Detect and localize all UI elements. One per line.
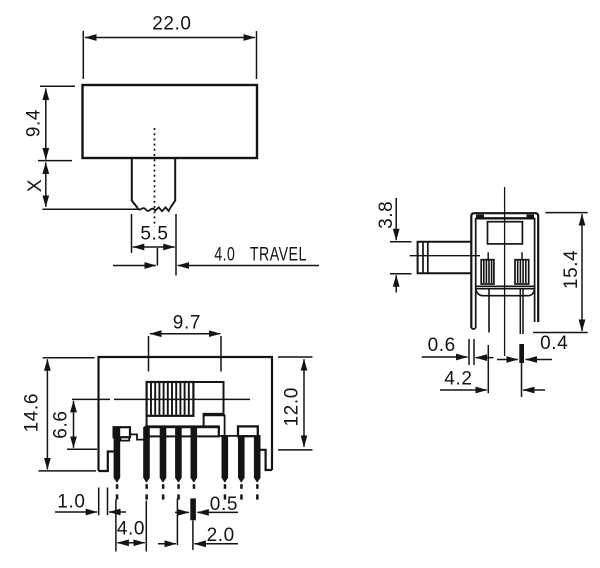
svg-text:22.0: 22.0 xyxy=(152,14,191,35)
dim 1.0 extension lines xyxy=(99,488,108,516)
dim 15.4 line xyxy=(581,214,583,331)
dim 0.5 pin cross-section bar xyxy=(190,498,196,520)
dim 3.8 extension lines xyxy=(390,242,412,274)
dim 0.5 left arrow xyxy=(175,511,189,513)
dim 0.4 right arrow xyxy=(526,359,553,361)
front view: slider knob hatched block xyxy=(147,382,194,416)
dim 9.7 line xyxy=(150,333,220,335)
side view: actuator xyxy=(418,242,471,274)
dim 4.2 left arrow xyxy=(440,389,487,391)
dim 5.5 extension lines xyxy=(132,214,177,276)
dim 4.0 line xyxy=(117,542,144,544)
top view: shaft break line xyxy=(137,207,170,211)
dim 22.0 extension lines xyxy=(83,31,256,79)
dim 0.4 pin cross-section bar xyxy=(519,344,524,363)
front view: pin 8 xyxy=(254,436,261,500)
svg-text:12.0: 12.0 xyxy=(281,387,302,426)
dim X bottom extension line xyxy=(43,208,140,210)
side view: right contact xyxy=(515,260,529,284)
front view: rail to pin6 xyxy=(219,435,238,437)
dim 2.0 left arrow xyxy=(158,543,176,545)
dim 5.5 line xyxy=(133,246,175,248)
front view: pin 4 xyxy=(175,427,182,500)
front view: pin 6 xyxy=(222,436,229,500)
front view: switch body outline xyxy=(99,357,273,471)
front view: knob centerline xyxy=(72,398,250,400)
dim 0.6 right arrow xyxy=(476,357,494,359)
dim 6.6 line xyxy=(73,401,75,448)
dim 0.5 right arrow xyxy=(197,511,238,513)
dim 14.6 line xyxy=(46,359,48,469)
top view: knob shaft xyxy=(132,158,175,208)
dim 9.4 line xyxy=(45,89,47,160)
side view: vertical centerline xyxy=(504,187,506,356)
dim 12.0 line xyxy=(303,359,305,447)
side view: cover inner outline xyxy=(476,219,535,328)
front view: pin 5 xyxy=(191,427,198,489)
front view: knob hatch lines xyxy=(151,383,189,415)
front view: caps rail pins 2-5 xyxy=(145,427,219,436)
side view: seat plate lines xyxy=(476,286,535,288)
side view: left terminal pin xyxy=(488,289,490,333)
side view: cover outer outline xyxy=(471,213,538,328)
svg-text:1.0: 1.0 xyxy=(57,492,85,513)
svg-text:15.4: 15.4 xyxy=(561,250,582,289)
svg-text:4.0: 4.0 xyxy=(214,245,235,266)
side view: actuator band xyxy=(423,242,428,274)
front view: pin 1 xyxy=(114,427,121,500)
side view: right terminal pin xyxy=(520,289,523,334)
dim 0.4 left arrow xyxy=(497,359,518,361)
dim 4.0 travel right arrow xyxy=(178,265,319,267)
svg-text:0.6: 0.6 xyxy=(428,335,456,356)
dim 4.0 travel drop line xyxy=(156,248,158,266)
front view: pin 3 xyxy=(160,427,167,500)
top view: knob body xyxy=(83,85,258,158)
dim 15.4 extension lines xyxy=(533,213,588,333)
dim 22.0 line xyxy=(85,37,255,39)
svg-text:14.6: 14.6 xyxy=(22,393,43,432)
svg-text:6.6: 6.6 xyxy=(51,410,72,438)
dim 4.2 right arrow xyxy=(523,389,545,391)
svg-text:TRAVEL: TRAVEL xyxy=(250,245,307,266)
side view: left contact stub xyxy=(487,252,489,259)
front view: pin 7 xyxy=(238,436,245,500)
dim 0.6 left arrow xyxy=(422,356,468,358)
side view: left contact xyxy=(481,260,494,284)
top view: shaft dotted centerline xyxy=(154,128,156,227)
side view: left contact hatch xyxy=(484,261,492,284)
svg-text:9.7: 9.7 xyxy=(173,312,201,333)
front view: knob base bottom edge xyxy=(145,426,219,436)
dim 3.8 lower arrow xyxy=(395,275,397,292)
front view: right ledge xyxy=(204,415,225,436)
side view: right contact stub xyxy=(521,252,523,259)
svg-text:5.5: 5.5 xyxy=(140,224,168,245)
side view: actuator centerline xyxy=(410,255,480,257)
dim 3.8 upper arrow xyxy=(395,198,397,240)
dim 0.6 extension lines xyxy=(469,339,474,365)
dim 4.0 extension lines xyxy=(116,500,146,552)
svg-text:3.8: 3.8 xyxy=(376,201,397,229)
svg-text:4.0: 4.0 xyxy=(117,519,145,540)
dim 14.6 extension lines xyxy=(38,358,96,471)
front view: pin1 cap step xyxy=(121,438,130,441)
svg-text:4.2: 4.2 xyxy=(444,368,472,389)
dim 1.0 left arrow xyxy=(55,511,97,513)
dim 9.7 extension lines xyxy=(149,336,222,372)
dim 2.0 extension lines xyxy=(177,498,193,550)
svg-text:0.4: 0.4 xyxy=(540,333,568,354)
dim 12.0 extension lines xyxy=(278,357,313,450)
dim X line xyxy=(45,163,47,207)
dim 1.0 right arrow xyxy=(109,511,126,513)
side view: left leg bottom xyxy=(471,328,475,329)
side view: skirt xyxy=(476,289,535,296)
front view: pin7-8 cap box xyxy=(238,426,258,436)
dim 4.2 extension lines xyxy=(488,345,521,397)
dim 9.4 extension lines xyxy=(38,86,75,160)
front view: pin 2 xyxy=(143,427,150,500)
front view: shoulder between cap1 and pin2 xyxy=(130,434,144,439)
front view: knob right step xyxy=(147,382,224,426)
svg-text:0.5: 0.5 xyxy=(210,494,238,515)
dim 6.6 bottom extension line xyxy=(67,448,97,450)
side view: window box xyxy=(488,222,523,244)
svg-text:9.4: 9.4 xyxy=(23,109,44,137)
dim 2.0 right arrow xyxy=(194,543,238,545)
svg-text:X: X xyxy=(25,179,46,192)
side view: right contact hatch xyxy=(518,261,526,284)
front view: pin8 to right foot link xyxy=(258,435,261,437)
front view: pin1 cap box xyxy=(114,427,130,437)
dim 4.0 travel left arrow xyxy=(113,265,156,267)
svg-text:2.0: 2.0 xyxy=(207,525,235,546)
